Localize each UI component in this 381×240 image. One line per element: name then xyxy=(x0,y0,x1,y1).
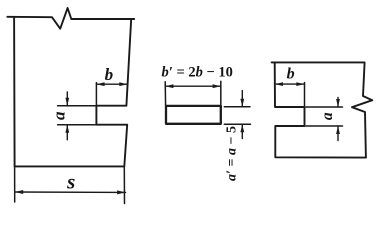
extension line below right edge (for s) xyxy=(123,166,125,203)
dimension line a' lower segment xyxy=(241,124,243,138)
arrowhead b right (part 2) xyxy=(296,82,304,86)
arrowhead b left (part 2) xyxy=(275,82,283,86)
part 2 outline (right piece with left-side notch and broken right edge) xyxy=(272,62,373,157)
dimension line a upper segment (part 2) xyxy=(337,98,339,108)
svg-text:s: s xyxy=(66,170,75,194)
svg-text:a: a xyxy=(319,112,336,120)
dimension line s xyxy=(15,191,126,193)
tenon bar (middle rectangle) xyxy=(166,106,221,124)
arrowhead a' top xyxy=(240,99,244,107)
arrowhead b' left xyxy=(165,84,173,88)
arrowhead s left xyxy=(15,190,24,194)
svg-text:a: a xyxy=(50,111,69,120)
extension line above notch inner edge (for b) xyxy=(95,83,97,106)
svg-text:b: b xyxy=(287,66,295,83)
arrowhead a bottom (part 2) xyxy=(336,126,340,134)
svg-text:b: b xyxy=(105,65,114,84)
arrowhead a top xyxy=(65,98,69,106)
extension line part 2 notch bottom extended right (for a) xyxy=(306,125,343,127)
extension line above part 2 notch inner edge (for b) xyxy=(304,83,306,108)
extension line notch top extended left (for a) xyxy=(58,105,97,107)
svg-text:a′ = a − 5: a′ = a − 5 xyxy=(225,126,240,181)
dimension line a' upper segment xyxy=(241,91,243,107)
dimension line a lower segment (part 2) xyxy=(337,126,339,141)
extension line tenon bottom extended right (for a') xyxy=(224,123,250,125)
extension line above tenon left corner (for b') xyxy=(164,82,166,106)
extension line tenon top extended right (for a') xyxy=(224,106,250,108)
extension line below left edge (for s) xyxy=(14,166,16,202)
extension line above tenon right corner (for b') xyxy=(220,81,222,107)
dimension line b (part 1) xyxy=(96,83,127,85)
extension line notch bottom extended left (for a) xyxy=(58,124,97,126)
dimension line b' xyxy=(165,85,221,87)
svg-text:b′ = 2b − 10: b′ = 2b − 10 xyxy=(162,65,233,81)
arrowhead b left xyxy=(96,82,104,86)
dimension line b (part 2) xyxy=(275,83,305,85)
part 1 right/bottom/left edges xyxy=(14,17,131,167)
part 1 outline (left piece with right-side notch) xyxy=(7,8,134,29)
arrowhead b right xyxy=(119,82,127,86)
dimension line a lower segment (part 1) xyxy=(66,125,68,140)
dimension line a upper segment (part 1) xyxy=(66,92,68,106)
extension line part 2 notch top extended right (for a) xyxy=(306,106,343,108)
arrowhead b' right xyxy=(213,84,221,88)
arrowhead a top (part 2) xyxy=(336,99,340,107)
arrowhead a bottom xyxy=(65,125,69,133)
arrowhead s right xyxy=(117,190,126,194)
arrowhead a' bottom xyxy=(240,124,244,132)
